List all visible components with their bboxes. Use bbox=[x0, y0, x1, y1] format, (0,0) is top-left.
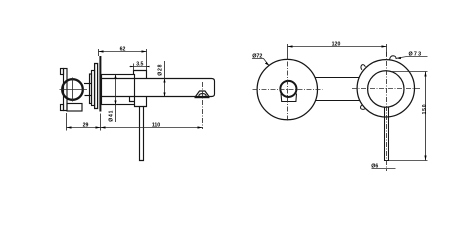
arrow 120 right bbox=[382, 45, 387, 47]
O6 label leader bbox=[372, 168, 396, 170]
rosette circle O72 bbox=[257, 59, 317, 119]
arrow O41 up bbox=[114, 75, 116, 79]
arrow O73 leader bbox=[396, 57, 401, 59]
arrow 29 left bbox=[67, 126, 72, 128]
handle stem lines bbox=[84, 84, 92, 96]
arrow 62 right bbox=[142, 50, 147, 52]
escutcheon plate large bbox=[95, 64, 98, 109]
left circle vertical centerline bbox=[287, 62, 289, 122]
bridge top line bbox=[315, 77, 359, 79]
O73 label underline and leader bbox=[396, 57, 428, 59]
top tab bbox=[390, 56, 397, 60]
arrowheads, right view bbox=[265, 45, 427, 160]
dimension 150 line bbox=[425, 72, 427, 161]
arrow 62 left bbox=[99, 50, 104, 52]
arrow O28 down bbox=[163, 93, 165, 97]
escutcheon plate middle bbox=[92, 71, 95, 106]
svg-text:Ø28: Ø28 bbox=[158, 64, 164, 76]
spout inner circle bbox=[368, 71, 404, 107]
aerator base thick line bbox=[195, 97, 210, 99]
arrow O72 leader bbox=[265, 62, 269, 66]
svg-text:150: 150 bbox=[422, 104, 428, 115]
bottom chained dimension line 29 / 110 bbox=[67, 127, 203, 129]
left circle horizontal centerline bbox=[253, 89, 323, 91]
svg-text:62: 62 bbox=[120, 47, 126, 53]
svg-text:110: 110 bbox=[152, 123, 160, 129]
spout tube O28 (side view) bbox=[102, 79, 215, 97]
handle knob circle (side view) bbox=[62, 79, 83, 100]
arrow 150 top bbox=[424, 72, 426, 77]
upper-left ear bbox=[361, 65, 366, 70]
arrow 3.5 left bbox=[130, 66, 133, 68]
handle bracket (side view) bbox=[61, 69, 68, 111]
svg-text:120: 120 bbox=[332, 42, 341, 48]
aerator ring ellipse bbox=[199, 94, 206, 98]
escutcheon plate small bbox=[90, 74, 92, 104]
wall flange plate bbox=[99, 56, 101, 112]
lever pipe front bbox=[385, 107, 389, 161]
arrow 3.5 right bbox=[147, 66, 150, 68]
aerator seat notch bbox=[196, 91, 210, 97]
arrow 110 right bbox=[198, 126, 203, 128]
cartridge collar top bbox=[134, 71, 147, 79]
arrowheads, left view bbox=[67, 50, 203, 128]
dimension 62 line and extensions bbox=[99, 51, 147, 53]
arrow O28 up bbox=[163, 79, 165, 83]
dimension texts, right view bbox=[252, 42, 428, 170]
knob square front bbox=[281, 94, 297, 102]
lever drop pipe (side view) bbox=[140, 107, 144, 161]
right circle horizontal centerline bbox=[352, 88, 420, 90]
spout rosette circle O73 bbox=[357, 60, 414, 117]
dimension O28 leader bbox=[164, 61, 166, 97]
right circle vertical centerline bbox=[386, 52, 388, 171]
svg-text:3.5: 3.5 bbox=[136, 62, 143, 68]
arrow 150 bottom bbox=[424, 156, 426, 161]
lower-left ear bbox=[361, 105, 366, 109]
arrow O41 down bbox=[114, 101, 116, 105]
centerlines, right view bbox=[253, 52, 421, 171]
arrow 29/110 shared bbox=[96, 126, 101, 128]
svg-text:Ø6: Ø6 bbox=[371, 164, 378, 170]
dimension lines, right view bbox=[252, 44, 428, 169]
lever hub below barrel bbox=[135, 97, 147, 107]
svg-text:29: 29 bbox=[83, 123, 89, 129]
under-knob base block bbox=[67, 104, 82, 112]
svg-text:Ø73: Ø73 bbox=[409, 51, 423, 57]
mixer body O41 (side view) bbox=[102, 75, 135, 105]
bridge bottom line bbox=[316, 100, 360, 102]
svg-text:Ø72: Ø72 bbox=[252, 53, 262, 59]
O72 label underline and leader bbox=[252, 59, 269, 66]
dimension texts, left view bbox=[83, 47, 164, 129]
dimension O41 leader bbox=[115, 75, 117, 123]
dimension 3.5 line bbox=[130, 66, 150, 68]
knob circle front bbox=[280, 81, 296, 97]
svg-text:Ø41: Ø41 bbox=[109, 110, 115, 122]
dimension 120 line bbox=[288, 46, 387, 48]
small under-step ring bbox=[130, 97, 135, 102]
aerator centerline bbox=[202, 82, 204, 129]
arrow 120 left bbox=[288, 45, 293, 47]
knob crosshair centerlines bbox=[60, 78, 88, 102]
